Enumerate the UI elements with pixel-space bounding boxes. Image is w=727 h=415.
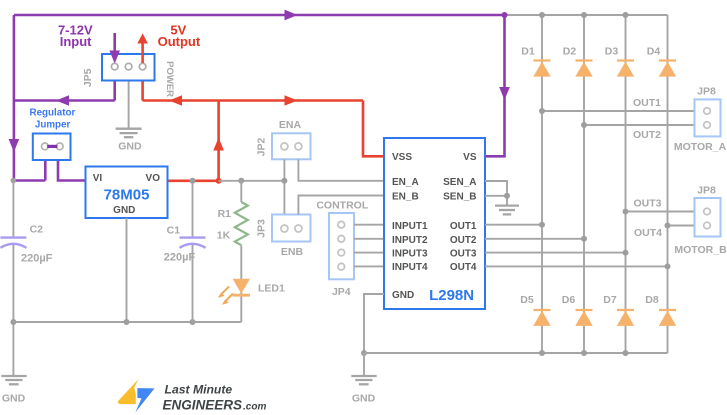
svg-text:GND: GND: [118, 141, 142, 153]
wire: red horizontal toward JP5 (arrow left): [143, 95, 219, 106]
label 1K: [217, 230, 231, 242]
wire: JP5 middle pin to ground: [128, 81, 130, 129]
wire: OUT4 pin stub: [485, 265, 668, 267]
diode D2: [575, 61, 592, 77]
label D7: [603, 294, 617, 306]
ground symbol under JP5: [116, 129, 142, 138]
wire: JP3 right pin to EN_B: [298, 196, 384, 215]
label JP2 (rotated): [256, 138, 268, 157]
wire: purple JP5 pin1 drop: [113, 81, 116, 101]
node: junction JP2/5V rail: [281, 178, 287, 184]
label 5V Output: [158, 23, 201, 49]
label LED1: [258, 283, 285, 295]
label JP5 (rotated): [82, 68, 94, 87]
label ENA: [279, 119, 302, 131]
wire: top rail gray continuation to diode columns: [505, 14, 668, 16]
wire: red horizontal to VSS branch (arrow right): [219, 95, 363, 106]
wire: C1 column upper: [192, 181, 194, 237]
wire: OUT1 row to motor A pin1: [542, 110, 695, 112]
label GND under JP5: [118, 141, 142, 153]
node: 5V rail dots (C1, R1): [190, 178, 245, 184]
wire: red 5V from JP5 pin3 down: [141, 81, 144, 101]
wire: OUT1 pin stub: [485, 224, 542, 226]
svg-text:JP8: JP8: [697, 185, 716, 197]
wire: OUT3 row to motor B pin1: [626, 211, 695, 213]
label JP8 (motor A): [697, 86, 716, 98]
ground symbol bottom-middle: [351, 376, 376, 384]
svg-text:R1: R1: [218, 208, 232, 220]
label C2: [30, 224, 44, 236]
diode D6: [575, 310, 592, 326]
svg-text:SEN_B: SEN_B: [443, 192, 476, 203]
ground symbol bottom-left: [1, 376, 26, 384]
wire: red vertical into VSS: [363, 101, 384, 157]
diode D7: [617, 310, 634, 326]
svg-text:OUT2: OUT2: [450, 235, 477, 246]
connector JP2 (ENA): [272, 133, 311, 159]
label 220uF (C2): [21, 253, 53, 265]
svg-text:GND: GND: [352, 393, 376, 405]
capacitor C2: [0, 238, 26, 248]
wire: purple right vertical to VS: [485, 15, 510, 156]
connector JP3 (ENB): [272, 215, 311, 242]
wire: R1 to LED and LED to rail: [240, 245, 242, 322]
svg-text:OUT4: OUT4: [634, 227, 662, 239]
svg-text:OUT2: OUT2: [633, 129, 661, 141]
svg-text:Jumper: Jumper: [35, 119, 71, 130]
wire: bottom-left ground rail: [13, 321, 241, 323]
svg-text:OUT3: OUT3: [633, 198, 661, 210]
wire: OUT3 pin stub: [485, 252, 626, 254]
wire: C2 column lower to bottom-left GND: [12, 243, 14, 376]
svg-text:JP2: JP2: [256, 138, 268, 157]
wire: diode column D3/D7: [625, 15, 627, 353]
svg-text:D2: D2: [563, 46, 577, 58]
node: top rail dots: [502, 12, 629, 18]
wire: diode column D4/D8: [667, 15, 669, 353]
connector JP8 (motor B): [695, 198, 721, 237]
svg-text:INPUT3: INPUT3: [392, 248, 428, 259]
label CONTROL: [316, 200, 368, 212]
label OUT1: [633, 97, 661, 109]
wire: red vertical from VO rail up (arrow up): [213, 101, 224, 181]
svg-text:D8: D8: [645, 294, 659, 306]
label D4: [647, 46, 661, 58]
svg-text:VI: VI: [93, 173, 103, 184]
diode D8: [659, 310, 676, 326]
label JP3 (rotated): [256, 219, 268, 238]
svg-text:JP8: JP8: [697, 86, 716, 98]
connector JP4 (control): [329, 213, 354, 279]
label C1: [167, 225, 181, 237]
label D2: [563, 46, 577, 58]
resistor R1: [235, 202, 248, 245]
node: OUT3/OUT4 row dots: [623, 209, 671, 229]
svg-text:D1: D1: [521, 46, 535, 58]
svg-text:INPUT4: INPUT4: [392, 262, 428, 273]
wire: OUT2 pin stub: [485, 238, 584, 240]
svg-text:78M05: 78M05: [104, 187, 150, 204]
svg-text:Output: Output: [158, 34, 201, 49]
svg-text:OUT4: OUT4: [450, 262, 477, 273]
label D3: [605, 46, 619, 58]
wire: OUT2 row to motor A pin2: [584, 124, 695, 126]
wire: C1 column lower: [192, 243, 194, 322]
ground symbol SEN: [495, 206, 519, 215]
svg-text:GND: GND: [2, 393, 26, 405]
svg-text:D3: D3: [605, 46, 619, 58]
label MOTOR_B: [674, 244, 727, 256]
svg-text:ENGINEERS.com: ENGINEERS.com: [163, 397, 267, 412]
label JP4: [332, 286, 351, 298]
wire: L298N GND pin to bottom rail: [364, 294, 384, 353]
label JP8 (motor B): [697, 185, 716, 197]
svg-text:ENA: ENA: [279, 119, 302, 131]
svg-text:JP3: JP3: [256, 219, 268, 238]
wire: diode column D2/D6: [583, 15, 585, 353]
svg-text:GND: GND: [392, 290, 414, 301]
svg-text:D7: D7: [603, 294, 617, 306]
wire: purple horizontal y=100 from JP5 pin1 to left vertical: [14, 95, 115, 106]
svg-text:OUT3: OUT3: [450, 248, 477, 259]
node: OUT1/OUT2 row dots: [539, 108, 587, 128]
svg-text:220µF: 220µF: [164, 252, 196, 264]
svg-text:Regulator: Regulator: [30, 107, 76, 118]
svg-text:MOTOR_B: MOTOR_B: [674, 244, 727, 256]
regulator U: 78M05: [86, 167, 168, 219]
jumper block (regulator jumper): [33, 134, 71, 161]
wire: purple left vertical (input): [9, 15, 20, 181]
node: purple/gray corner C2 branch: [11, 178, 17, 184]
node: OUT pin stub dots: [539, 222, 671, 270]
wire: C2 column upper: [12, 181, 14, 237]
node: rail dots left: [10, 319, 195, 325]
node: VO junction (red dot): [216, 178, 222, 184]
wire: R1/LED column top: [240, 181, 242, 202]
label D5: [520, 294, 534, 306]
capacitor C1: [180, 238, 206, 248]
wire: JP2 left pin to 5V rail and down to JP3: [283, 159, 285, 214]
node: bottom rail dots: [539, 350, 629, 356]
svg-text:Last Minute: Last Minute: [165, 383, 233, 397]
svg-text:VO: VO: [146, 173, 161, 184]
label D8: [645, 294, 659, 306]
label D6: [562, 294, 576, 306]
connector JP5 (power): [102, 54, 155, 81]
label OUT3: [633, 198, 661, 210]
svg-text:D5: D5: [520, 294, 534, 306]
svg-text:CONTROL: CONTROL: [316, 200, 368, 212]
svg-text:C1: C1: [167, 225, 181, 237]
diode D1: [533, 61, 550, 77]
IC U1: L298N: [384, 138, 485, 309]
wire: 5V gray rail to ENA/ENB: [219, 180, 285, 182]
wire: purple jumper right pin to VI of 78M05: [58, 160, 86, 181]
svg-text:VSS: VSS: [392, 152, 412, 163]
wire: bottom ground rail: [364, 352, 668, 354]
svg-text:POWER: POWER: [164, 61, 175, 97]
label POWER (rotated): [164, 61, 175, 97]
svg-text:ENB: ENB: [281, 246, 304, 258]
logo: Last Minute Engineers: [118, 379, 267, 412]
diode D3: [617, 61, 634, 77]
svg-text:INPUT1: INPUT1: [392, 221, 428, 232]
svg-text:VS: VS: [463, 152, 477, 163]
arrow: 5V output from JP5 pin3: [137, 33, 148, 63]
svg-text:D6: D6: [562, 294, 576, 306]
svg-text:L298N: L298N: [429, 287, 474, 304]
node: bottom rail GND junction: [361, 350, 367, 356]
svg-text:Input: Input: [60, 34, 92, 49]
diode D4: [659, 61, 676, 77]
label OUT2: [633, 129, 661, 141]
wire: JP4 pin stubs to INPUT1-4: [354, 225, 384, 267]
label R1: [218, 208, 232, 220]
wire: red VO output segment: [168, 180, 219, 183]
svg-text:EN_A: EN_A: [392, 177, 419, 188]
wire: SEN_A stub: [485, 181, 507, 205]
label D1: [521, 46, 535, 58]
svg-text:JP5: JP5: [82, 68, 94, 87]
label OUT4: [634, 227, 662, 239]
arrow: 7-12V input into JP5 pin1: [109, 33, 120, 64]
svg-text:D4: D4: [647, 46, 661, 58]
svg-text:SEN_A: SEN_A: [443, 177, 476, 188]
label 220uF (C1): [164, 252, 196, 264]
svg-text:MOTOR_A: MOTOR_A: [674, 141, 727, 153]
svg-text:1K: 1K: [217, 230, 231, 242]
svg-text:OUT1: OUT1: [450, 221, 477, 232]
LED LED1: [218, 279, 250, 305]
label Regulator Jumper: [30, 107, 76, 130]
svg-text:C2: C2: [30, 224, 44, 236]
wire: purple bottom run to regulator jumper: [14, 160, 45, 181]
wire: +12V top rail (purple): [14, 10, 505, 21]
svg-text:GND: GND: [113, 205, 135, 216]
connector JP8 (motor A): [695, 99, 721, 136]
svg-text:JP4: JP4: [332, 286, 351, 298]
svg-text:OUT1: OUT1: [633, 97, 661, 109]
label 7-12V Input: [58, 23, 93, 49]
label GND bottom-left: [2, 393, 26, 405]
wire: 78M05 GND column: [126, 218, 128, 322]
label ENB: [281, 246, 304, 258]
svg-text:INPUT2: INPUT2: [392, 235, 428, 246]
svg-text:220µF: 220µF: [21, 253, 53, 265]
wire: diode column D1/D5: [541, 15, 543, 353]
wire: OUT4 row to motor B pin2: [668, 225, 695, 227]
wire: SEN_B stub: [485, 195, 507, 197]
node: SEN junction: [504, 193, 510, 199]
diode D5: [533, 310, 550, 326]
svg-text:LED1: LED1: [258, 283, 285, 295]
wire: drop to bottom-middle ground: [363, 353, 365, 376]
label MOTOR_A: [674, 141, 727, 153]
label GND bottom-middle: [352, 393, 376, 405]
wire: JP2 right pin to EN_A: [298, 159, 384, 181]
svg-text:EN_B: EN_B: [392, 192, 419, 203]
